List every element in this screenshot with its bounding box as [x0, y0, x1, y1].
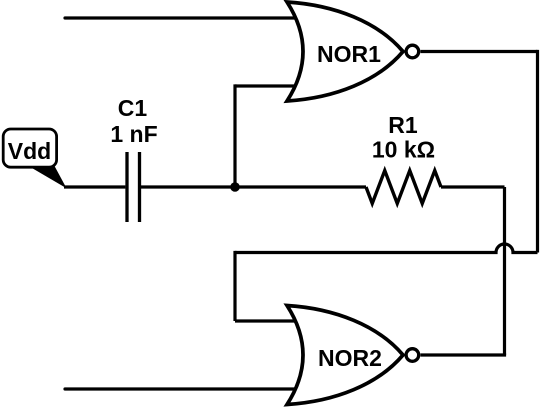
wire Vdd to C1	[64, 185, 125, 188]
svg-text:10 kΩ: 10 kΩ	[372, 137, 435, 163]
svg-text:NOR2: NOR2	[318, 345, 382, 371]
nor-gate NOR1	[287, 2, 403, 101]
wire R1 to vertical	[441, 185, 505, 188]
bubble NOR1 output	[406, 45, 419, 58]
wire NOR1 bottom input horizontal	[235, 84, 300, 87]
wire NOR1 output horizontal	[421, 50, 538, 53]
wire NOR1 top input	[65, 16, 300, 19]
wire feedback horizontal with hop	[235, 244, 538, 253]
svg-text:R1: R1	[388, 112, 418, 138]
svg-text:Vdd: Vdd	[8, 138, 51, 164]
svg-text:NOR1: NOR1	[317, 41, 381, 67]
capacitor C1 plates	[127, 152, 140, 222]
nor-gate NOR2	[287, 306, 403, 405]
svg-text:1 nF: 1 nF	[110, 121, 157, 147]
bubble NOR2 output	[406, 349, 419, 362]
wire NOR2 top input	[235, 319, 300, 322]
wire NOR2 output horizontal	[421, 353, 507, 356]
resistor R1	[366, 171, 441, 204]
wire NOR2 output vertical up to R1	[503, 187, 506, 355]
wire node A to R1	[235, 185, 366, 188]
wire feedback vertical down	[233, 251, 236, 321]
wire C1 to node A	[141, 185, 235, 188]
wire NOR1 bottom input vertical	[233, 84, 236, 187]
node A junction dot	[230, 182, 240, 192]
svg-text:C1: C1	[118, 95, 148, 121]
wire NOR2 bottom input	[65, 387, 300, 390]
Vdd label callout	[3, 129, 66, 188]
wire NOR1 output vertical right side	[536, 50, 539, 253]
